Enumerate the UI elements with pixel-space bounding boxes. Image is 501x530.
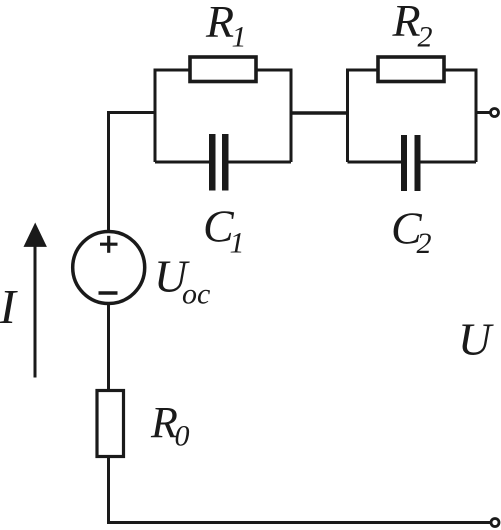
label C2 xyxy=(391,203,432,261)
svg-text:I: I xyxy=(0,279,19,334)
svg-text:2: 2 xyxy=(418,20,433,53)
svg-text:R: R xyxy=(392,0,421,46)
label C1 xyxy=(203,201,245,260)
wire xyxy=(107,113,155,232)
label R0 xyxy=(150,398,190,453)
svg-text:2: 2 xyxy=(417,227,432,260)
wire xyxy=(109,456,496,523)
capacitor C2 xyxy=(401,135,421,191)
resistor R1 xyxy=(190,57,256,82)
label U_oc xyxy=(154,251,210,311)
wire xyxy=(476,111,490,114)
current arrow I xyxy=(24,223,47,378)
svg-text:1: 1 xyxy=(230,227,245,260)
svg-text:R: R xyxy=(205,0,234,47)
resistor R0 xyxy=(97,391,124,457)
RC block 1 outline wires xyxy=(155,70,291,162)
label R1 xyxy=(205,0,247,53)
terminal node (bottom) xyxy=(491,519,499,527)
RC block 2 outline wires xyxy=(348,70,477,162)
svg-text:oc: oc xyxy=(182,278,210,311)
terminal node (top) xyxy=(491,109,499,117)
capacitor C1 xyxy=(209,134,229,191)
resistor R2 xyxy=(378,57,444,82)
wire xyxy=(107,304,110,391)
label R2 xyxy=(392,0,433,53)
svg-text:U: U xyxy=(458,314,494,365)
voltage source U_oc xyxy=(73,232,145,304)
wire xyxy=(291,111,348,114)
svg-text:0: 0 xyxy=(175,420,190,453)
svg-text:1: 1 xyxy=(232,20,247,53)
